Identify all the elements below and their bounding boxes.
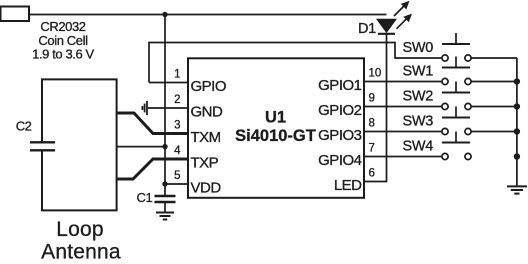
node VDD pin5 junction bbox=[162, 181, 167, 186]
svg-text:5: 5 bbox=[174, 170, 180, 182]
svg-text:2: 2 bbox=[174, 94, 180, 106]
svg-text:GND: GND bbox=[191, 104, 224, 121]
wire VDD vertical (rail down to C1) bbox=[164, 15, 166, 197]
svg-text:C1: C1 bbox=[137, 190, 153, 205]
svg-text:GPIO2: GPIO2 bbox=[318, 102, 362, 119]
node bus SW2 bbox=[514, 103, 520, 109]
pin 7 wire to SW4 bbox=[364, 156, 442, 158]
svg-text:SW1: SW1 bbox=[403, 64, 434, 80]
IC U1 labels bbox=[235, 109, 316, 146]
op-amp/IC U1 Si4010-GT body bbox=[188, 58, 364, 198]
svg-text:4: 4 bbox=[174, 145, 181, 157]
svg-text:10: 10 bbox=[369, 68, 382, 80]
svg-text:SW2: SW2 bbox=[403, 89, 434, 105]
switch SW4 bbox=[442, 132, 471, 160]
wire VDD rail (battery to D1 anode corner) bbox=[29, 14, 387, 16]
svg-text:CR2032: CR2032 bbox=[40, 19, 85, 34]
battery CR2032 coin cell bbox=[1, 7, 30, 22]
node antenna-feed junction bbox=[162, 144, 167, 149]
node bus SW4 bbox=[514, 153, 520, 159]
wire ground bus (right) bbox=[516, 58, 518, 186]
svg-text:D1: D1 bbox=[358, 21, 376, 37]
pin 1 stub bbox=[149, 82, 188, 84]
pin 2 stub (GND) bbox=[148, 107, 188, 109]
svg-text:3: 3 bbox=[174, 120, 180, 132]
LED arrow 1 bbox=[394, 4, 406, 16]
svg-text:8: 8 bbox=[369, 118, 375, 130]
switch SW1 bbox=[442, 57, 517, 85]
ground (below C1) bbox=[156, 213, 174, 220]
node rail/VDD-line junction bbox=[162, 12, 167, 17]
svg-text:SW0: SW0 bbox=[403, 40, 434, 56]
svg-text:SW4: SW4 bbox=[403, 139, 434, 155]
wire antenna feed to VDD line bbox=[117, 146, 165, 148]
LED D1 bbox=[377, 1, 412, 34]
ground (sideways at pin 2) bbox=[142, 101, 147, 115]
LED arrow 2 bbox=[397, 17, 409, 29]
svg-text:U1: U1 bbox=[265, 109, 286, 127]
svg-text:GPIO3: GPIO3 bbox=[318, 127, 362, 144]
ground (switch bus) bbox=[507, 186, 527, 193]
svg-text:GPIO4: GPIO4 bbox=[318, 152, 362, 169]
svg-text:SW3: SW3 bbox=[403, 114, 434, 130]
switch SW3 bbox=[442, 107, 517, 135]
pin 8 wire to SW3 bbox=[364, 131, 442, 133]
svg-text:C2: C2 bbox=[16, 119, 32, 134]
svg-text:LED: LED bbox=[334, 177, 362, 194]
wire LED cathode: D1 down to pin 6 bbox=[364, 34, 387, 182]
loop antenna (rectangle with C2 gap in left side) bbox=[42, 79, 117, 210]
svg-text:6: 6 bbox=[369, 168, 375, 180]
svg-text:7: 7 bbox=[369, 143, 375, 155]
capacitor C1 bbox=[155, 196, 176, 202]
svg-text:TXP: TXP bbox=[191, 155, 219, 172]
pin 10 wire to SW1 bbox=[364, 81, 442, 83]
svg-text:Loop: Loop bbox=[56, 218, 104, 241]
svg-text:Antenna: Antenna bbox=[41, 241, 121, 264]
pin 9 wire to SW2 bbox=[364, 106, 442, 108]
loop antenna label bbox=[41, 218, 121, 264]
node bus SW1 bbox=[514, 78, 520, 84]
switch SW0 bbox=[442, 33, 517, 61]
svg-text:Si4010-GT: Si4010-GT bbox=[235, 127, 316, 145]
svg-text:GPIO1: GPIO1 bbox=[318, 77, 362, 94]
svg-text:1: 1 bbox=[174, 69, 180, 81]
svg-text:9: 9 bbox=[369, 93, 375, 105]
svg-text:VDD: VDD bbox=[191, 180, 222, 197]
battery value label bbox=[32, 19, 94, 62]
wire GPIO pin1 hook up and across to SW0 bbox=[149, 43, 442, 83]
capacitor C2 bbox=[30, 142, 55, 150]
svg-text:1.9 to 3.6 V: 1.9 to 3.6 V bbox=[32, 47, 94, 62]
node bus SW3 bbox=[514, 128, 520, 134]
pin 5 stub (VDD) bbox=[165, 183, 188, 185]
wire TXP (thick trace antenna to pin 4) bbox=[117, 159, 188, 179]
switch SW2 bbox=[442, 82, 517, 110]
wire TXM (thick trace antenna to pin 3) bbox=[117, 113, 188, 134]
svg-text:TXM: TXM bbox=[191, 129, 221, 146]
svg-text:GPIO: GPIO bbox=[191, 78, 227, 95]
